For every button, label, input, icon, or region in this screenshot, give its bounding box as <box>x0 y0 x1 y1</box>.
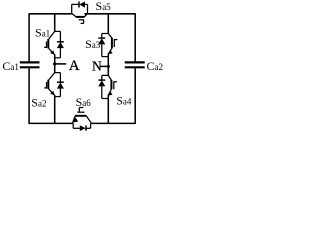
svg-text:A: A <box>69 58 80 74</box>
svg-text:N: N <box>92 59 102 74</box>
svg-text:Sa1: Sa1 <box>35 26 50 40</box>
svg-text:Ca2: Ca2 <box>147 59 164 73</box>
svg-text:Sa6: Sa6 <box>76 95 92 109</box>
svg-text:Sa2: Sa2 <box>31 96 46 110</box>
svg-text:Sa3: Sa3 <box>85 37 101 51</box>
svg-text:Sa5: Sa5 <box>96 0 112 13</box>
svg-text:Sa4: Sa4 <box>116 94 132 108</box>
svg-text:Ca1: Ca1 <box>2 59 19 73</box>
